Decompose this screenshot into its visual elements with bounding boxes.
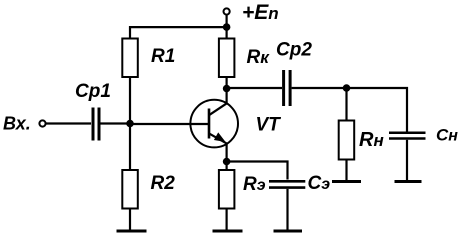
terminal +En [224,8,230,14]
transistor VT [190,100,238,148]
capacitor Cэ [269,180,305,183]
ground under Rн [332,180,361,183]
node: collector junction [223,85,231,93]
svg-text:Rк: Rк [247,47,271,68]
wire: Cн to ground [406,140,408,181]
wire: R2 to ground [129,209,131,232]
wire: Cp2 to output node [292,87,347,89]
wire: Cэ to ground [286,189,288,231]
svg-text:Cэ: Cэ [308,173,331,194]
resistor R1 [122,39,138,78]
wire: R1 top stub [129,26,131,38]
svg-text:Cн: Cн [436,126,458,145]
svg-text:+En: +En [242,1,279,24]
wire: Rэ to ground [226,209,228,232]
resistor Rк [219,39,235,78]
wire: output node to Cн branch [347,88,408,132]
ground under R2 [117,230,147,233]
capacitor Cн [389,131,426,134]
wire: output node to Rн [345,88,347,121]
ground under Cэ [274,230,303,233]
wire: base node to transistor base [130,123,209,125]
capacitor Cp1 [92,108,95,141]
svg-text:VT: VT [256,115,282,136]
ground under Rэ [213,230,243,233]
svg-text:Rэ: Rэ [243,174,266,195]
wire: top supply rail [129,26,227,28]
resistor R2 [122,170,138,209]
wire: Rн to ground [345,160,347,182]
wire: Cp1 to base node [101,122,131,124]
wire: emitter node to Rэ [226,162,228,171]
resistor Rн [339,121,355,160]
node: base junction [126,120,134,128]
svg-text:R1: R1 [151,46,175,67]
svg-text:Cp1: Cp1 [75,81,111,102]
wire: emitter node to Cэ [227,162,288,180]
wire: collector to Cp2 [227,87,282,89]
svg-text:Вх.: Вх. [3,114,31,134]
node: output junction [343,84,351,92]
ground under Cн [395,180,422,183]
svg-text:R2: R2 [151,173,176,194]
capacitor Cp2 [282,70,285,106]
svg-text:Cp2: Cp2 [276,40,312,61]
resistor Rэ [219,170,235,209]
svg-text:Rн: Rн [359,129,384,151]
terminal Вх. input [39,120,45,126]
node: emitter junction [223,158,231,166]
node: supply junction [223,23,231,31]
wire: input to Cp1 [46,122,91,124]
wire: base vertical (R1 bottom to R2 top) [129,77,131,170]
